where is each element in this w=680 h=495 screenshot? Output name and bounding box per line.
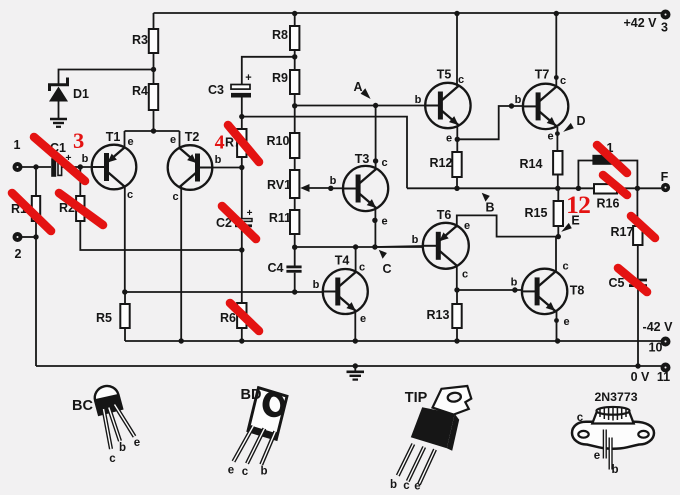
wire — [62, 166, 92, 168]
svg-text:c: c — [403, 480, 410, 492]
svg-text:T8: T8 — [570, 284, 585, 298]
ground under D1 — [50, 119, 67, 127]
wire — [294, 50, 296, 70]
red stroke over R1 — [12, 193, 51, 231]
wire -42V rail — [125, 340, 661, 342]
svg-text:F: F — [661, 170, 669, 184]
resistor R2 — [59, 196, 84, 221]
svg-text:R12: R12 — [430, 156, 453, 170]
resistor R1 — [11, 196, 40, 221]
wire — [636, 188, 638, 278]
svg-text:c: c — [458, 74, 464, 86]
package 2N3773 pin b — [611, 438, 619, 477]
wire T8 emitter — [556, 312, 558, 342]
wire T5 collector — [456, 13, 458, 86]
wire — [294, 94, 296, 133]
node T5 emitter — [455, 137, 460, 142]
wire T7 emitter — [556, 127, 558, 151]
wire T4 collector — [355, 247, 357, 273]
node C4 bottom — [292, 289, 297, 294]
wire to F — [617, 187, 661, 189]
transistor T2 — [168, 130, 222, 203]
svg-text:b: b — [330, 175, 337, 187]
terminal -42V — [643, 320, 674, 355]
node — [555, 338, 560, 343]
svg-text:b: b — [260, 466, 267, 478]
red stroke over C5 — [618, 268, 647, 292]
svg-text:R13: R13 — [427, 308, 450, 322]
wire — [557, 175, 559, 189]
node T4 collector tap — [353, 244, 358, 249]
svg-text:R8: R8 — [272, 28, 288, 42]
resistor R17 — [611, 225, 643, 245]
svg-text:+: + — [247, 208, 253, 219]
capacitor C2 — [216, 208, 253, 230]
node C2 bottom / feedback — [239, 247, 244, 252]
svg-text:R10: R10 — [267, 134, 290, 148]
node T2 base / R7-C2 — [239, 165, 244, 170]
svg-text:C4: C4 — [268, 261, 284, 275]
wire T6 base — [375, 246, 423, 247]
wire — [35, 221, 37, 366]
node label B — [482, 193, 495, 215]
svg-text:3: 3 — [73, 128, 84, 153]
red number 3 — [73, 128, 84, 153]
wire node A rail — [295, 105, 426, 107]
wire R2 to feedback node — [80, 221, 242, 250]
svg-text:c: c — [127, 189, 133, 201]
package BC leg e — [115, 405, 141, 450]
svg-text:T7: T7 — [535, 68, 550, 82]
red stroke over C2 — [222, 206, 256, 239]
svg-text:D1: D1 — [73, 87, 89, 101]
node R3-R4 junction — [151, 67, 156, 72]
transistor T7 — [515, 68, 569, 143]
red stroke over R6 — [230, 303, 259, 331]
wire bootstrap link — [242, 117, 407, 189]
transistor T3 — [343, 152, 388, 228]
red stroke over C1 — [34, 137, 85, 181]
node R2 top — [78, 164, 83, 169]
resistor R5 — [96, 304, 130, 328]
node T3 collector — [373, 158, 378, 163]
red number 4 — [215, 132, 225, 154]
node — [554, 11, 559, 16]
svg-text:3: 3 — [661, 21, 668, 35]
wire D1 branch — [59, 70, 154, 86]
wire T3 emitter — [374, 209, 376, 248]
svg-text:T3: T3 — [355, 152, 370, 166]
resistor R9 — [272, 70, 299, 94]
wire T7 collector — [555, 13, 557, 86]
svg-text:TIP: TIP — [405, 390, 428, 406]
wire T6 collector — [456, 265, 458, 291]
wire RV1 wiper to T3 base — [331, 187, 344, 189]
wire T5-T7 link — [457, 106, 523, 139]
svg-text:BC: BC — [72, 398, 93, 414]
svg-text:4: 4 — [215, 132, 225, 154]
svg-text:R11: R11 — [269, 211, 291, 225]
svg-text:b: b — [119, 442, 126, 454]
svg-text:T6: T6 — [437, 208, 452, 222]
node C3 bottom — [239, 114, 244, 119]
node label C — [379, 250, 392, 276]
resistor R4 — [132, 84, 158, 110]
svg-text:e: e — [464, 220, 470, 232]
svg-text:R4: R4 — [132, 84, 148, 98]
svg-text:b: b — [611, 464, 618, 476]
svg-text:C3: C3 — [208, 83, 224, 97]
resistor R16 — [594, 184, 620, 210]
resistor R14 — [520, 151, 563, 175]
svg-text:e: e — [547, 131, 553, 143]
capacitor C4 — [268, 261, 302, 275]
svg-text:c: c — [109, 453, 116, 465]
wire VAS emitter rail — [295, 246, 423, 248]
svg-text:c: c — [381, 157, 387, 169]
package 2N3773 label c — [577, 412, 584, 424]
wire — [241, 227, 243, 303]
wire — [22, 236, 36, 238]
resistor R12 — [430, 152, 462, 177]
svg-text:e: e — [446, 133, 452, 145]
svg-text:c: c — [462, 269, 468, 281]
svg-text:R16: R16 — [597, 197, 620, 211]
svg-text:BD: BD — [241, 387, 262, 403]
resistor R15 — [525, 201, 563, 226]
node output junction — [635, 186, 640, 191]
terminal +42V — [623, 10, 670, 35]
wire top +42V rail — [154, 12, 666, 14]
node R1 top — [33, 164, 38, 169]
package 2N3773 case — [572, 390, 654, 449]
package BC leg c — [104, 409, 117, 465]
node T7 emitter — [555, 131, 560, 136]
svg-text:R14: R14 — [520, 157, 543, 171]
svg-text:c: c — [577, 412, 584, 424]
red stroke over R2 — [59, 193, 103, 225]
svg-text:e: e — [170, 134, 176, 146]
wire T6 emitter link — [457, 215, 559, 236]
resistor R10 — [267, 133, 300, 158]
package TIP tab — [433, 386, 472, 415]
wire T2 collector — [180, 186, 182, 341]
svg-text:e: e — [134, 437, 140, 449]
resistor R6 — [220, 303, 246, 328]
svg-text:c: c — [172, 191, 178, 203]
node — [353, 338, 358, 343]
wire VAS feed — [125, 291, 323, 293]
wire T5 emitter — [456, 126, 458, 152]
svg-text:e: e — [563, 316, 569, 328]
svg-text:-42 V: -42 V — [643, 320, 674, 334]
red stroke over L1 — [597, 145, 627, 173]
svg-text:RV1: RV1 — [267, 178, 291, 192]
node T3 base — [328, 175, 337, 191]
transistor T6 — [412, 208, 470, 281]
package BD leg b — [260, 432, 275, 478]
svg-text:R6: R6 — [220, 311, 236, 325]
svg-text:2N3773: 2N3773 — [594, 390, 637, 404]
package 2N3773 pin e — [594, 430, 605, 463]
node — [239, 338, 244, 343]
node R4 bottom — [151, 128, 156, 133]
svg-text:10: 10 — [649, 341, 663, 355]
wire — [124, 292, 126, 341]
package BD leg c — [242, 429, 265, 479]
svg-text:e: e — [594, 450, 600, 462]
wire T4 emitter — [354, 312, 356, 342]
node E junction — [556, 234, 561, 239]
svg-text:R3: R3 — [132, 33, 148, 47]
terminal F — [661, 170, 670, 192]
wire — [294, 13, 296, 26]
svg-text:b: b — [511, 277, 518, 289]
svg-text:b: b — [82, 153, 89, 165]
wire — [241, 328, 243, 341]
package TIP leg c — [403, 447, 424, 492]
node T7 base — [509, 103, 514, 108]
node T1 collector / R5 top — [122, 289, 127, 294]
node R11 bottom — [292, 245, 297, 250]
node T8 base — [512, 287, 517, 292]
svg-text:e: e — [381, 216, 387, 228]
svg-text:c: c — [562, 261, 568, 273]
node — [454, 11, 459, 16]
resistor R11 — [269, 210, 300, 234]
node R8-R9 junction — [292, 54, 297, 59]
wire C3 branch — [242, 57, 295, 85]
wire — [294, 158, 296, 170]
terminal 0V — [631, 363, 671, 385]
svg-text:T1: T1 — [106, 130, 121, 144]
terminal 1 — [13, 138, 23, 172]
svg-text:b: b — [390, 479, 397, 491]
wire T2 base — [212, 167, 242, 169]
inductor L1 — [592, 141, 613, 165]
wire node B rail — [407, 187, 594, 189]
node label D — [563, 114, 585, 132]
node — [454, 338, 459, 343]
wire input — [22, 166, 51, 168]
node T3 emitter tap — [372, 244, 377, 249]
package TIP leg b — [390, 444, 413, 491]
svg-text:b: b — [313, 279, 320, 291]
svg-text:b: b — [415, 94, 422, 106]
svg-text:T2: T2 — [185, 130, 200, 144]
wire emitter bridge — [125, 130, 180, 132]
capacitor C3 — [208, 72, 252, 98]
capacitor C1 — [50, 141, 72, 177]
wire — [153, 110, 155, 131]
ground symbol — [347, 366, 365, 380]
red number 12 — [566, 190, 591, 219]
transistor T1 — [82, 130, 137, 201]
wire — [294, 273, 296, 292]
node A — [373, 103, 378, 108]
wire T8 base — [457, 289, 522, 291]
package TIP leg e — [414, 450, 435, 493]
svg-text:R5: R5 — [96, 311, 112, 325]
svg-text:c: c — [359, 262, 365, 274]
svg-text:11: 11 — [657, 370, 670, 384]
svg-text:C: C — [382, 262, 391, 276]
svg-text:2: 2 — [578, 190, 591, 219]
resistor R7 — [225, 129, 246, 157]
red stroke over R16 — [603, 175, 627, 195]
svg-text:e: e — [360, 313, 366, 325]
svg-text:b: b — [515, 94, 522, 106]
svg-text:T5: T5 — [437, 68, 452, 82]
svg-text:B: B — [485, 201, 494, 215]
svg-text:2: 2 — [15, 247, 22, 261]
node — [179, 338, 184, 343]
svg-text:D: D — [576, 114, 585, 128]
package BC case — [72, 383, 122, 415]
wire T1 collector — [124, 186, 126, 293]
svg-text:0 V: 0 V — [631, 370, 650, 384]
wire — [153, 53, 155, 84]
svg-text:R17: R17 — [611, 225, 634, 239]
resistor R3 — [132, 29, 158, 53]
diode D1 — [49, 78, 89, 119]
svg-text:b: b — [412, 234, 419, 246]
wire — [241, 157, 243, 219]
package TIP case — [405, 390, 459, 451]
wire — [456, 290, 458, 341]
node ground tap — [353, 363, 358, 368]
svg-text:+42 V: +42 V — [623, 16, 657, 30]
resistor R8 — [272, 26, 299, 50]
potentiometer RV1 — [267, 170, 331, 198]
wire — [79, 167, 81, 196]
svg-text:e: e — [228, 465, 234, 477]
wire 0V rail — [36, 365, 661, 367]
node label E — [561, 214, 579, 232]
node R12 bottom — [454, 186, 459, 191]
svg-text:A: A — [353, 80, 362, 94]
node label A — [353, 80, 370, 99]
wire T3 collector — [375, 106, 377, 169]
wire T8 collector — [555, 237, 557, 272]
red stroke over R17 — [631, 216, 655, 238]
svg-text:T4: T4 — [335, 254, 350, 268]
node R13 top — [454, 287, 459, 292]
transistor T4 — [313, 254, 368, 326]
svg-text:b: b — [215, 154, 222, 166]
svg-text:+: + — [245, 72, 251, 84]
svg-text:e: e — [414, 481, 420, 493]
node R14 bottom — [555, 186, 560, 191]
svg-text:R15: R15 — [525, 206, 548, 220]
node T8 emitter — [554, 318, 559, 323]
wire — [637, 287, 639, 366]
node R1 bottom — [33, 234, 38, 239]
svg-text:E: E — [571, 214, 579, 228]
package BD leg e — [228, 426, 254, 477]
terminal 2 — [13, 232, 23, 261]
svg-text:c: c — [242, 466, 249, 478]
wire — [456, 177, 458, 188]
transistor T8 — [511, 261, 585, 329]
wire — [557, 188, 559, 236]
capacitor C5 — [609, 276, 647, 290]
svg-text:R9: R9 — [272, 71, 288, 85]
wire — [294, 198, 296, 210]
package BD case — [241, 387, 287, 439]
node A junction R9 bottom — [292, 103, 297, 108]
inductor L1 loop — [578, 161, 637, 189]
svg-text:c: c — [560, 75, 566, 87]
node C5 bottom — [635, 363, 640, 368]
node R3 top rail junction — [292, 11, 297, 16]
wire — [241, 98, 243, 130]
wire — [294, 234, 296, 266]
red stroke over R7 — [228, 125, 259, 162]
wire — [35, 167, 37, 196]
wire — [153, 13, 155, 29]
resistor R13 — [427, 304, 462, 328]
wire T2 emitter — [179, 131, 181, 149]
svg-text:C5: C5 — [609, 276, 625, 290]
wire T1 emitter — [124, 131, 126, 149]
svg-text:1: 1 — [14, 138, 21, 152]
package BC leg b — [109, 408, 126, 455]
node T7 collector tap — [554, 75, 559, 80]
svg-text:e: e — [127, 136, 133, 148]
node T3 emitter — [372, 218, 377, 223]
node L1 branch — [576, 186, 581, 191]
transistor T5 — [415, 68, 471, 145]
